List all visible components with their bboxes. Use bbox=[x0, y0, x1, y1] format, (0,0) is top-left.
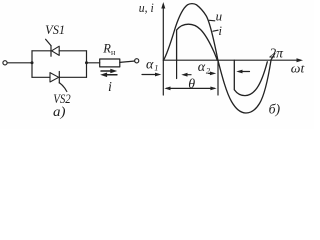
svg-text:i: i bbox=[108, 80, 112, 95]
svg-text:2π: 2π bbox=[269, 46, 284, 61]
graph y-axis bbox=[161, 2, 165, 95]
svg-text:1: 1 bbox=[154, 63, 158, 73]
label alpha1 bbox=[146, 57, 158, 72]
svg-text:н: н bbox=[111, 48, 116, 57]
wire node to resistor bbox=[87, 62, 100, 64]
curve i negative half (drop at pi+alpha2) bbox=[234, 60, 267, 95]
svg-text:R: R bbox=[102, 42, 111, 56]
right output terminal bbox=[135, 59, 139, 63]
label alpha2 bbox=[198, 60, 211, 75]
wire bottom rail left bbox=[32, 76, 50, 78]
svg-text:VS2: VS2 bbox=[53, 92, 70, 106]
arrow alpha2 left outside bbox=[209, 72, 217, 76]
svg-text:u, i: u, i bbox=[139, 1, 154, 15]
pointer to u curve bbox=[209, 19, 215, 22]
wire left vertical of parallel branch bbox=[31, 51, 33, 78]
resistor RH bbox=[100, 59, 120, 67]
curve u negative half with tail past 2pi bbox=[218, 54, 275, 113]
wire resistor to output terminal bbox=[120, 61, 135, 62]
wire top rail left bbox=[32, 50, 51, 52]
svg-text:ωt: ωt bbox=[291, 62, 305, 76]
graph x-axis (wt) bbox=[163, 58, 303, 62]
svg-text:α: α bbox=[146, 57, 154, 72]
svg-text:VS1: VS1 bbox=[45, 23, 65, 37]
svg-text:u: u bbox=[216, 9, 223, 24]
svg-text:θ: θ bbox=[188, 77, 195, 92]
arrow alpha1 right outside bbox=[181, 73, 191, 77]
curve u positive half bbox=[164, 4, 218, 61]
thyristor VS1 bbox=[46, 39, 60, 56]
wire bottom rail right bbox=[59, 76, 86, 78]
thyristor VS2 bbox=[50, 72, 67, 92]
svg-text:а): а) bbox=[53, 105, 66, 120]
svg-text:i: i bbox=[218, 23, 222, 38]
node left junction bbox=[31, 61, 34, 64]
current arrow left (i reverse) bbox=[100, 73, 117, 78]
svg-text:б): б) bbox=[269, 102, 281, 117]
theta dimension arrow bbox=[164, 87, 216, 91]
left input terminal bbox=[3, 61, 7, 65]
current arrow right (i forward) bbox=[101, 69, 117, 74]
wire right vertical of parallel branch bbox=[86, 51, 88, 78]
svg-text:α: α bbox=[198, 60, 206, 75]
pointer to i curve bbox=[213, 30, 218, 31]
extension line at alpha1 below axis bbox=[176, 60, 178, 78]
arrow alpha1 left outside bbox=[142, 73, 161, 77]
label R H bbox=[102, 42, 116, 58]
extension line at pi bbox=[217, 60, 219, 95]
wire top rail right bbox=[59, 50, 86, 52]
arrow alpha2 right outside bbox=[236, 70, 249, 74]
curve i positive half (rise at alpha1) bbox=[177, 24, 218, 60]
node right junction bbox=[85, 61, 88, 64]
wire input to node bbox=[7, 62, 32, 64]
